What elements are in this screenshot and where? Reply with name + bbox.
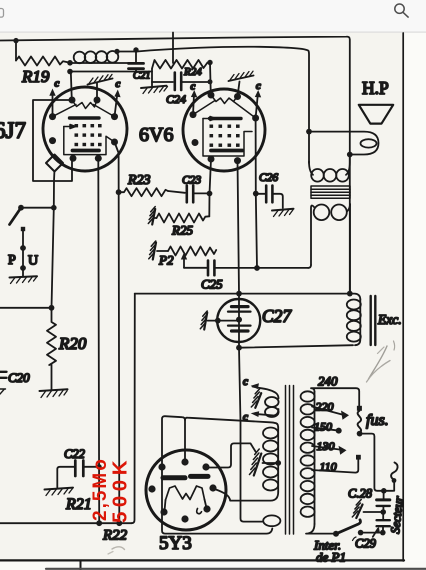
wire: C27 bottom to field coil bottom [239,345,353,348]
6J7 cathode bar [73,149,100,153]
svg-text:C.28: C.28 [348,487,373,501]
svg-text:P: P [8,253,16,268]
svg-text:P2: P2 [158,253,174,268]
wire: top-left pin loop around tube left [33,100,72,181]
wire: drop from HT bus to R19 [15,41,17,61]
6J7 internal box with arrow [64,125,76,129]
wire: long horizontal y=293.5 [135,293,350,295]
grid cap diamond on 6J7 [46,155,63,172]
HV center tap to chassis [275,460,281,466]
svg-text:R21: R21 [65,496,92,513]
mains plug squiggle [393,481,395,491]
HV secondary winding [274,423,278,427]
wire: 5Y3 right plate to HV bottom [213,489,230,501]
heater winding arrow c (lower) [259,409,279,416]
capacitor C28 [383,491,385,499]
svg-text:c: c [191,81,196,93]
wire: primary left end to C25 line [308,265,311,268]
svg-text:c: c [116,78,121,90]
svg-text:500K: 500K [109,456,132,523]
wire: diamond down to PU junction [52,172,55,308]
wire: 6V6 plate pin down long vertical (to C27 and below) [238,161,264,522]
svg-text:c: c [243,376,248,388]
output transformer secondary (top coil) [309,162,313,175]
junction above C28 [381,488,387,494]
capacitor C21 [135,50,137,63]
ground for C26 [272,209,294,211]
junction C21 top [133,47,138,52]
ground (hatch) above 6J7 [96,83,98,101]
svg-text:U: U [28,254,38,269]
tube 5Y3 envelope [146,450,226,530]
tap 220 wire and contact [312,407,342,415]
bottom margin strip [0,562,426,570]
capacitor C22 [74,461,77,477]
browser top bar [0,0,426,32]
pencil smudges below R22 [112,547,125,550]
heater arrow c (6V6 right) [256,95,258,119]
svg-text:R23: R23 [127,173,151,188]
wire: 6J7 plate to grid-cap line y=71.5 to R24 [70,71,152,73]
6J7 plate bar [70,116,100,119]
heater winding arrow c (upper) [253,387,279,399]
capacitor C25 [184,267,207,269]
svg-text:C27: C27 [262,306,292,326]
wire: y=307.8 line to left edge [0,307,52,309]
6J7 internal grid zigzag [72,100,97,109]
wire: R24 left drop to C24 [151,69,153,82]
junction C27 bottom [236,345,242,351]
right margin beyond page border [404,32,426,570]
svg-text:R22: R22 [102,528,128,544]
svg-text:R20: R20 [58,334,87,353]
resistor R19 [16,57,70,66]
heater arrow c (6V6 left) [193,95,194,115]
inductor (plate choke) on wire y=63 [70,62,128,64]
junction R23 tap on x=118.6 [116,189,122,195]
chassis bar for R25 [154,217,157,219]
capacitor C20 (cut off at left edge) [0,372,7,378]
chassis bar for P2 [157,250,168,252]
ground for R20 [40,389,68,391]
svg-text:6J7: 6J7 [0,118,26,143]
switch P.U [21,207,54,209]
junction HT bus / R19 [13,38,18,43]
junction voice coil top [306,129,312,135]
6V6 grid dots [210,125,240,147]
svg-text:C29: C29 [355,537,377,551]
ground for P.U [22,268,24,277]
wire: 6J7 screen pin down long vertical x=118.6 [115,142,120,523]
6V6 plate bar [210,117,242,120]
P2 wiper arrow [183,258,185,268]
wire: second bus from coil to output transformer corner x=309 [117,47,309,163]
wire: vertical feed from top edge down to R24 [172,33,174,64]
wire: R24 right down to 6V6 grid pin [209,63,212,96]
6J7 pin dots [49,97,118,162]
tap 130 wire and contact [312,446,340,450]
svg-text:R25: R25 [171,223,193,238]
field coil core bars [371,296,376,345]
6V6 cathode bar [211,149,243,153]
fuse contact and element [357,406,362,411]
wire: 6V6 grid pin down to R25 [209,159,211,216]
wire: switch contact to C29 bottom [361,532,383,534]
svg-text:C23: C23 [182,175,201,187]
chassis bar for heater winding [255,393,261,408]
6J7 grid dots [75,124,102,146]
junction y=293.5 line at field coil [347,291,353,297]
ground (chassis) for C24 [151,82,153,86]
ground for C22 [45,488,74,490]
svg-text:130: 130 [317,439,335,453]
svg-text:c: c [55,78,60,90]
wire: fuse to mains capacitors [360,434,394,491]
mains primary winding (tapped) [311,388,359,406]
wire: 5Y3 plate to HV top via box [185,418,274,462]
heater winding (transformer, small) [265,397,279,407]
pencil sketch marks [369,346,388,379]
junction between C28 and C29 [380,509,386,515]
wire: 6J7 cathode pin down long vertical x=98.3 [97,158,100,523]
wire: 6V6 screen pin down to C26/C25 junctions [256,118,257,268]
junction at R19 right / plate lead [67,60,73,66]
svg-text:150: 150 [314,420,332,434]
mains switch Inter de P1 [333,531,339,537]
field coil (excitation) [350,294,361,300]
output transformer core [311,186,350,198]
svg-text:Exc.: Exc. [377,312,402,327]
6V6 internal box with arrow [203,117,216,121]
5Y3 pin dots [148,458,216,522]
chassis bar for mains caps [364,511,384,513]
svg-text:fus.: fus. [366,412,389,429]
svg-text:C22: C22 [64,447,85,461]
svg-text:R19: R19 [21,67,50,86]
svg-text:5Y3: 5Y3 [159,533,192,554]
wire: primary right end down to field coil junction [349,204,351,294]
tap 150 wire and contact [312,428,337,431]
heater arrow c (6J7 right) [115,94,118,117]
svg-text:c: c [256,80,261,92]
wire: HT bus (top, y=40 left to corner x=350) [0,37,350,294]
resistor R24 [152,60,210,69]
junction C23 / 6V6 grid line [207,191,213,197]
junction R24 right [207,60,212,65]
wire: 5Y3 upper-right pin to chassis bar [206,443,256,467]
magnifier search icon [395,4,409,18]
junction y=293.5 line at C27 [236,291,242,297]
capacitor C23 [168,191,185,193]
junction bus2 left end [114,49,119,54]
svg-text:de P1: de P1 [316,550,346,565]
wire: vertical from plate junction into 6J7 top-left pin [71,72,72,101]
capacitor C26 [256,193,266,195]
resistor R20 (vertical) [47,308,56,390]
tube 6J7 envelope [43,87,127,171]
speaker voice coil [309,132,379,155]
chassis bar for C27 [208,320,240,322]
junction C26 [253,191,259,197]
partial icon at top-left of bar [0,9,4,18]
power transformer core bars [286,386,294,535]
6V6 internal grid zigzag [211,95,238,104]
page border bottom [0,559,404,561]
tap 110 wire and contact [312,460,358,473]
single loop between HT line and rail [263,515,280,526]
bottom rail y=523 with junctions [0,522,132,524]
loudspeaker cone symbol [359,105,393,124]
tube 6V6 envelope [183,89,265,171]
page border right [402,33,404,561]
svg-text:C24: C24 [166,92,186,106]
svg-text:C20: C20 [8,370,30,385]
svg-text:H.P: H.P [362,78,389,98]
tick below bottom border [80,562,82,570]
ground (hatch) above 6V6 [238,82,240,97]
wire: left riser x=134.8 from bottom rail up to y=293.5 [132,294,135,524]
capacitor C29 [382,512,384,519]
photo edge line at very bottom [46,568,426,570]
junction C25 line / heater-bus vertical [254,265,260,271]
svg-text:R24: R24 [183,66,202,78]
svg-text:C26: C26 [259,172,278,184]
5Y3 filament zigzag [166,486,205,500]
resistor R23 [119,188,168,196]
junction voice coil bottom [347,152,353,158]
6V6 pin dots [190,92,260,165]
svg-text:6V6: 6V6 [139,124,173,146]
heater arrow c (6J7 left) [52,93,54,117]
electrolytic C27 (can) [217,299,260,342]
output transformer primary (bottom coil) [311,205,314,265]
potentiometer P2 track [168,247,216,256]
svg-text:C25: C25 [201,277,223,292]
5Y3 plate bars [163,475,185,480]
capacitor C24 [152,81,173,83]
resistor R25 [157,214,210,223]
svg-text:240: 240 [318,374,338,389]
